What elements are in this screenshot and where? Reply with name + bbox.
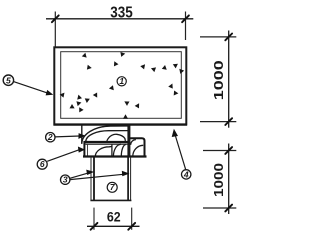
svg-text:1000: 1000 xyxy=(212,163,226,197)
svg-text:62: 62 xyxy=(107,209,121,225)
svg-text:6: 6 xyxy=(40,159,45,169)
svg-text:5: 5 xyxy=(6,75,11,85)
svg-text:1000: 1000 xyxy=(212,60,226,100)
svg-text:2: 2 xyxy=(47,132,53,142)
svg-text:335: 335 xyxy=(110,5,133,22)
svg-text:1: 1 xyxy=(119,76,124,86)
svg-text:4: 4 xyxy=(183,169,189,179)
svg-text:3: 3 xyxy=(63,175,68,185)
